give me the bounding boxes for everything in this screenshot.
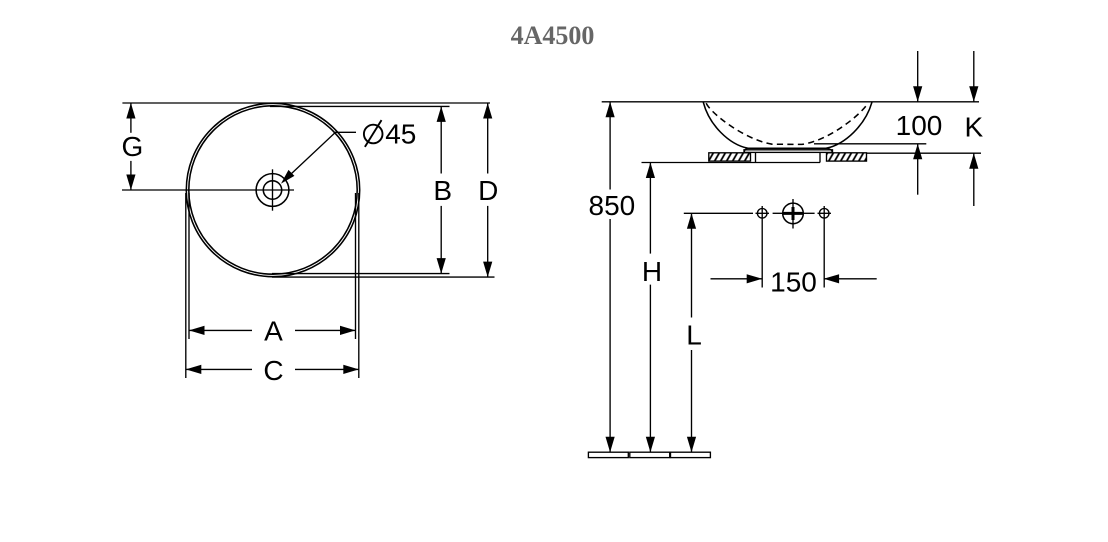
svg-text:850: 850 [589,190,636,221]
svg-text:A: A [264,316,283,347]
svg-text:4A4500: 4A4500 [511,21,595,50]
svg-text:H: H [642,256,662,287]
svg-text:D: D [478,175,498,206]
svg-text:45: 45 [385,118,416,149]
svg-text:100: 100 [896,110,943,141]
svg-text:C: C [263,355,283,386]
svg-text:L: L [686,319,702,350]
svg-text:G: G [122,131,144,162]
svg-text:150: 150 [770,266,817,297]
svg-text:K: K [965,112,984,143]
svg-text:B: B [433,175,452,206]
